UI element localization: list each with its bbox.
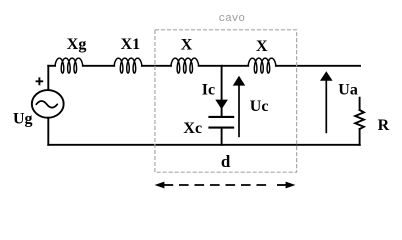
svg-text:cavo: cavo bbox=[219, 13, 245, 25]
voltage arrow Ua (up) bbox=[320, 71, 333, 133]
inductor X cable-right coil bbox=[248, 58, 276, 73]
svg-text:Xc: Xc bbox=[183, 120, 202, 137]
svg-text:X: X bbox=[256, 38, 268, 55]
current arrow Ic (down) head bbox=[215, 100, 228, 110]
capacitor Xc bottom plate bbox=[208, 127, 234, 129]
wire between X1 and X (cable left) bbox=[142, 65, 171, 67]
source sine wave bbox=[36, 101, 57, 108]
svg-text:d: d bbox=[221, 152, 231, 171]
resistor R bottom lead to bottom rail bbox=[359, 129, 361, 145]
svg-text:Xg: Xg bbox=[67, 36, 87, 53]
dimension arrow d (double headed, dashed shaft) bbox=[155, 182, 296, 189]
wire capacitor branch upper bbox=[221, 66, 223, 116]
svg-text:X: X bbox=[181, 36, 193, 53]
capacitor Xc top plate bbox=[208, 116, 234, 118]
wire top rail right of cable to right end bbox=[276, 65, 360, 67]
svg-text:X1: X1 bbox=[121, 36, 141, 53]
wire top left vertical (source to top rail) bbox=[47, 66, 49, 90]
svg-text:Ug: Ug bbox=[13, 111, 33, 128]
wire from cable-left coil over node to cable-right coil bbox=[199, 65, 249, 67]
resistor R top lead bbox=[359, 98, 361, 110]
wire top rail segment from source corner to Xg bbox=[48, 65, 55, 67]
inductor X cable-left coil bbox=[171, 58, 199, 73]
svg-text:R: R bbox=[378, 117, 390, 134]
inductor Xg coil bbox=[55, 58, 83, 73]
inductor X1 coil bbox=[114, 58, 142, 73]
wire capacitor branch lower bbox=[221, 129, 223, 145]
wire bottom rail bbox=[48, 144, 360, 146]
svg-text:Ic: Ic bbox=[202, 81, 215, 98]
source plus sign bbox=[36, 77, 44, 85]
source Ug circle bbox=[32, 90, 64, 118]
resistor R zigzag bbox=[355, 110, 364, 129]
svg-text:Uc: Uc bbox=[250, 98, 269, 115]
voltage arrow Uc (up) bbox=[233, 76, 245, 137]
wire source bottom to bottom rail bbox=[47, 119, 49, 145]
cable boundary dashed box bbox=[155, 30, 297, 172]
svg-text:Ua: Ua bbox=[338, 81, 358, 98]
wire between Xg and X1 bbox=[83, 65, 114, 67]
